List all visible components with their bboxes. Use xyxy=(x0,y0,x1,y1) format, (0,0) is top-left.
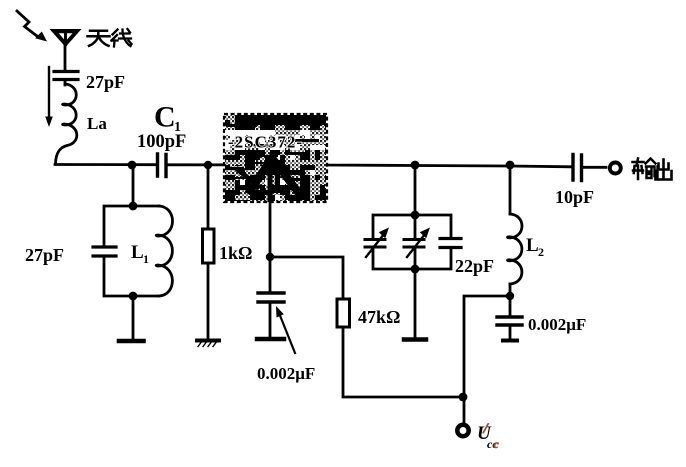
svg-text:C: C xyxy=(154,101,176,134)
svg-text:27pF: 27pF xyxy=(25,245,64,265)
svg-text:0.002μF: 0.002μF xyxy=(257,364,315,383)
svg-text:-2SC372-: -2SC372- xyxy=(228,133,303,152)
svg-text:1kΩ: 1kΩ xyxy=(219,243,252,263)
svg-text:47kΩ: 47kΩ xyxy=(358,307,400,327)
svg-text:c: c xyxy=(494,437,500,451)
svg-text:L: L xyxy=(131,242,144,263)
svg-text:10pF: 10pF xyxy=(555,187,594,207)
svg-text:2: 2 xyxy=(538,245,544,259)
svg-text:100pF: 100pF xyxy=(137,132,186,152)
svg-text:0.002μF: 0.002μF xyxy=(528,315,586,334)
svg-text:27pF: 27pF xyxy=(86,72,125,92)
svg-text:L: L xyxy=(526,235,539,256)
svg-text:1: 1 xyxy=(143,252,149,266)
svg-text:22pF: 22pF xyxy=(455,256,494,276)
svg-text:La: La xyxy=(87,114,107,133)
